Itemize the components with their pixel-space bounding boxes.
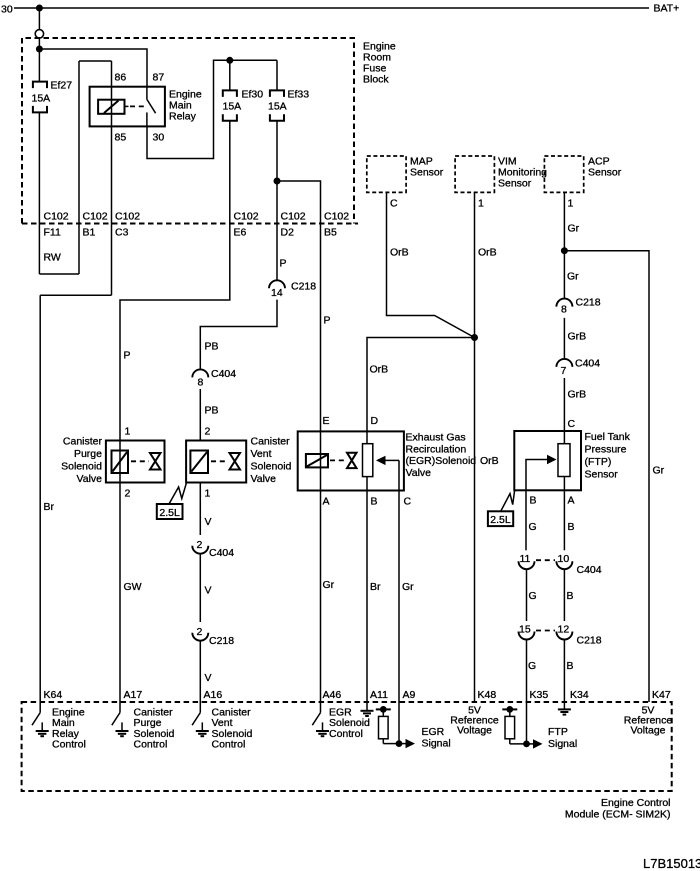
wires below C404 pair (526, 569, 528, 621)
node junction OrB (471, 334, 478, 341)
node junction Ef30 (226, 57, 233, 64)
connector open circle (35, 30, 43, 38)
svg-text:GrB: GrB (568, 331, 587, 343)
svg-text:C218: C218 (209, 635, 234, 647)
EGR signal pull-up supply (376, 706, 391, 716)
FTP signal pull-up supply (502, 706, 517, 716)
wire pin A from resistor (563, 477, 565, 551)
svg-text:B: B (371, 496, 378, 508)
wire to A16 (199, 641, 201, 702)
svg-text:C404: C404 (211, 368, 236, 380)
ACP Sensor box (544, 156, 583, 192)
relay contact blade (147, 99, 156, 113)
svg-text:Relay: Relay (169, 111, 197, 123)
wire B1 column up (78, 61, 80, 274)
svg-text:C: C (568, 418, 576, 430)
svg-text:Ef30: Ef30 (242, 89, 264, 101)
wire pin C stub (563, 431, 565, 444)
svg-text:Br: Br (370, 581, 381, 593)
svg-text:E: E (323, 415, 330, 427)
Canister Purge Solenoid Valve box (106, 441, 165, 483)
wire pin B from resistor (366, 477, 368, 702)
svg-text:OrB: OrB (478, 247, 497, 259)
svg-text:Gr: Gr (323, 579, 335, 591)
Fuel Tank Pressure (FTP) Sensor box (514, 431, 581, 490)
svg-text:OrB: OrB (390, 247, 409, 259)
svg-text:Signal: Signal (422, 738, 451, 750)
svg-text:Ef27: Ef27 (51, 80, 73, 92)
svg-text:15A: 15A (223, 101, 242, 113)
fuse Ef27 15A (33, 82, 47, 89)
EGR valve symbol (347, 453, 357, 468)
svg-text:Solenoid: Solenoid (61, 461, 102, 473)
svg-text:G: G (529, 590, 537, 602)
callout leader bolt (501, 491, 515, 512)
svg-text:C3: C3 (115, 227, 129, 239)
wire to C404-7 (563, 318, 565, 359)
svg-text:C: C (390, 198, 398, 210)
svg-text:Fuel Tank: Fuel Tank (585, 431, 631, 443)
svg-text:(EGR)Solenoid: (EGR)Solenoid (406, 455, 477, 467)
svg-text:Sensor: Sensor (498, 178, 532, 190)
wire to Ef33 (276, 60, 278, 90)
wires below C218 pair (526, 640, 528, 744)
purge valve symbol (150, 453, 161, 470)
relay U1 Engine Main Relay box (90, 87, 165, 127)
svg-text:85: 85 (115, 132, 127, 144)
svg-text:1: 1 (568, 198, 574, 210)
wire relay 86/85 through-column C3 (111, 61, 113, 295)
Engine Control Module (ECM-SIM2K) dashed box (22, 702, 672, 791)
svg-text:Control: Control (329, 728, 363, 740)
svg-text:A11: A11 (370, 689, 388, 701)
svg-text:G: G (528, 660, 536, 672)
svg-text:C102: C102 (324, 211, 349, 223)
node 30 / BAT+ rail (14, 7, 649, 9)
svg-text:P: P (324, 315, 331, 327)
A16 driver switch and ground (192, 702, 209, 736)
svg-text:F11: F11 (44, 227, 61, 239)
svg-text:Gr: Gr (653, 465, 665, 477)
svg-text:V: V (205, 516, 212, 528)
svg-text:E6: E6 (234, 227, 247, 239)
svg-text:10: 10 (558, 553, 570, 565)
EGR position resistor (363, 444, 373, 477)
wire Ef30 down C102 E6 then jog to purge valve (120, 121, 230, 702)
A11 ground (361, 702, 374, 716)
svg-text:GrB: GrB (568, 389, 587, 401)
svg-text:Br: Br (44, 501, 55, 513)
wire BAT+ down to fuse block (38, 8, 40, 30)
svg-text:Control: Control (134, 739, 168, 751)
wire to relay pin 87 (39, 49, 147, 87)
svg-text:P: P (124, 350, 131, 362)
svg-text:2.5L: 2.5L (490, 514, 511, 526)
svg-text:Voltage: Voltage (457, 725, 492, 737)
relay coil (98, 100, 124, 114)
relay contact 87 stub (146, 87, 148, 100)
svg-text:Module (ECM- SIM2K): Module (ECM- SIM2K) (565, 809, 671, 821)
wire jog C3 to K64 column (40, 294, 111, 296)
svg-text:14: 14 (271, 287, 283, 299)
svg-text:K48: K48 (478, 689, 497, 701)
svg-text:Gr: Gr (567, 271, 579, 283)
MAP Sensor box (367, 156, 406, 192)
svg-text:C218: C218 (576, 297, 601, 309)
svg-text:C102: C102 (115, 211, 140, 223)
svg-text:K64: K64 (44, 689, 63, 701)
svg-text:Signal: Signal (548, 738, 577, 750)
wire ACP pin 1 (563, 192, 565, 298)
svg-text:C404: C404 (209, 547, 234, 559)
EGR wiper arrow (385, 459, 399, 461)
svg-text:7: 7 (561, 365, 567, 377)
purge coil link dashes (131, 460, 149, 462)
wire MAP sensor pin C (387, 192, 475, 337)
EGR solenoid coil (306, 454, 328, 467)
svg-text:Control: Control (52, 739, 86, 751)
svg-text:1: 1 (478, 198, 484, 210)
wire to vent valve pin 2 (199, 389, 201, 441)
svg-text:C102: C102 (44, 211, 69, 223)
node junction FTP signal (523, 741, 530, 748)
svg-text:K34: K34 (570, 689, 589, 701)
svg-text:A: A (568, 495, 575, 507)
svg-text:C404: C404 (575, 358, 600, 370)
svg-text:B: B (568, 521, 575, 533)
wire pin B down (525, 490, 527, 550)
svg-text:2: 2 (197, 539, 203, 551)
svg-text:B: B (567, 660, 574, 672)
svg-text:Sensor: Sensor (585, 469, 619, 481)
svg-text:Sensor: Sensor (588, 167, 622, 179)
svg-text:C102: C102 (281, 211, 306, 223)
connector C218 pin 8 (556, 299, 572, 307)
wire RW U-turn bottom (39, 273, 79, 275)
connector row C102 labels (44, 211, 350, 239)
EGR signal arrow (399, 743, 406, 745)
wire Br down to K64 (39, 295, 41, 702)
callout 2.5L (vent) (157, 504, 183, 519)
svg-text:OrB: OrB (480, 455, 499, 467)
node junction to relay 87 (36, 46, 43, 53)
FTP wiper arrow (526, 460, 548, 491)
svg-text:V: V (205, 585, 212, 597)
wire Ef27 down through C102 F11 (38, 112, 40, 274)
K34 ground (558, 709, 571, 714)
svg-text:K47: K47 (652, 689, 671, 701)
wire EGR E/A through-column (320, 431, 322, 702)
svg-text:OrB: OrB (370, 364, 389, 376)
svg-text:Engine Control: Engine Control (601, 797, 670, 809)
svg-text:PB: PB (205, 405, 219, 417)
connector C218 pin 14 (269, 280, 285, 288)
wire to FTP sensor pin C (563, 378, 565, 430)
wire to Ef30 (229, 60, 231, 90)
svg-text:K35: K35 (530, 689, 549, 701)
svg-text:A: A (323, 496, 330, 508)
svg-text:EGR: EGR (422, 726, 445, 738)
svg-text:GW: GW (124, 581, 142, 593)
fuse Ef30 15A (223, 90, 237, 97)
svg-text:Block: Block (363, 74, 389, 86)
svg-text:Purge: Purge (74, 448, 102, 460)
svg-text:30: 30 (153, 132, 165, 144)
vent solenoid coil (190, 451, 208, 474)
svg-text:V: V (205, 672, 212, 684)
wire below vent pin 1 (199, 483, 201, 536)
callout leader bolt (169, 483, 186, 504)
FTP signal resistor (505, 716, 515, 738)
svg-text:B1: B1 (83, 227, 96, 239)
svg-text:FTP: FTP (548, 726, 568, 738)
wire relay 30 to fuses (147, 60, 277, 158)
svg-text:Valve: Valve (251, 473, 277, 485)
node junction ACP branch (561, 247, 568, 254)
vent coil link dashes (211, 460, 228, 462)
svg-text:B: B (530, 495, 537, 507)
svg-text:G: G (529, 521, 537, 533)
FTP signal arrow (527, 743, 534, 745)
svg-text:8: 8 (198, 377, 204, 389)
A17 driver switch and ground (112, 702, 129, 736)
Canister Vent Solenoid Valve box (186, 441, 246, 483)
connector C404 pin 8 (192, 369, 208, 377)
Engine Room Fuse Block dashed box (22, 38, 354, 224)
svg-text:D: D (371, 415, 379, 427)
wire to relay pin 86 (79, 60, 112, 62)
Exhaust Gas Recirculation (EGR) Solenoid Valve box (298, 431, 404, 490)
svg-text:C404: C404 (577, 564, 602, 576)
svg-text:15A: 15A (268, 101, 287, 113)
svg-text:2: 2 (205, 426, 211, 438)
K64 driver switch and ground (32, 702, 49, 736)
svg-text:Ef33: Ef33 (288, 89, 310, 101)
svg-text:Control: Control (212, 739, 246, 751)
svg-text:C102: C102 (234, 211, 259, 223)
svg-text:Solenoid: Solenoid (251, 461, 292, 473)
svg-text:L7B15013: L7B15013 (643, 856, 700, 871)
svg-text:11: 11 (520, 553, 531, 565)
svg-text:PB: PB (205, 341, 219, 353)
svg-text:A46: A46 (323, 689, 342, 701)
svg-text:P: P (280, 258, 287, 270)
wire to C218-2 (199, 554, 201, 622)
FTP internal resistor (558, 444, 570, 477)
relay coil link dashes (125, 105, 129, 107)
svg-text:Voltage: Voltage (630, 725, 665, 737)
node junction B5 branch (274, 178, 281, 185)
wire branch to B5 column (277, 181, 321, 431)
svg-text:8: 8 (561, 304, 567, 316)
wire pin C (398, 460, 400, 743)
A46 driver switch and ground (312, 702, 329, 736)
fuse Ef33 15A (270, 90, 284, 97)
wire VIM pin 1 down to K48 (474, 192, 476, 702)
purge solenoid coil (112, 451, 129, 474)
svg-text:Recirculation: Recirculation (406, 443, 467, 455)
svg-text:Gr: Gr (402, 581, 414, 593)
relay contact 30 stub (146, 112, 148, 126)
svg-text:C218: C218 (291, 281, 316, 293)
svg-text:A9: A9 (403, 689, 416, 701)
svg-text:(FTP): (FTP) (585, 456, 612, 468)
svg-text:Canister: Canister (63, 436, 103, 448)
wire branch to K47 column (564, 251, 649, 702)
svg-text:BAT+: BAT+ (654, 3, 680, 15)
vent valve symbol (230, 453, 241, 470)
wire circle to junction to fuse Ef27 (38, 38, 40, 82)
EGR signal resistor (379, 716, 389, 738)
wire Ef33 down C102 D2 (276, 121, 278, 281)
svg-text:Sensor: Sensor (410, 167, 444, 179)
svg-text:Canister: Canister (251, 436, 291, 448)
svg-text:1: 1 (125, 426, 131, 438)
svg-text:2: 2 (197, 626, 203, 638)
svg-text:86: 86 (115, 72, 127, 84)
svg-text:Pressure: Pressure (585, 444, 627, 456)
svg-text:Gr: Gr (568, 223, 580, 235)
svg-text:Valve: Valve (406, 467, 432, 479)
node junction EGR signal (396, 740, 403, 747)
svg-text:B5: B5 (324, 227, 337, 239)
wire C218-14 down, jog to vent column (200, 300, 277, 370)
svg-text:C: C (404, 496, 412, 508)
svg-text:RW: RW (44, 252, 61, 264)
svg-text:Valve: Valve (77, 473, 103, 485)
svg-text:A17: A17 (124, 689, 143, 701)
junction on BAT+ rail (36, 5, 43, 12)
callout 2.5L (FTP) (488, 511, 513, 526)
svg-text:2.5L: 2.5L (159, 507, 180, 519)
EGR coil link dashes (330, 459, 346, 461)
svg-text:2: 2 (125, 488, 131, 500)
svg-text:15: 15 (519, 624, 531, 636)
svg-text:15A: 15A (32, 93, 51, 105)
connector C404 pin 7 (556, 359, 572, 367)
svg-text:D2: D2 (281, 227, 295, 239)
svg-text:A16: A16 (204, 689, 223, 701)
svg-text:Vent: Vent (251, 448, 272, 460)
svg-text:1: 1 (205, 488, 211, 500)
wire pin D stub (366, 431, 368, 443)
VIM Monitoring Sensor box (455, 156, 494, 192)
svg-text:Exhaust Gas: Exhaust Gas (406, 432, 466, 444)
svg-text:87: 87 (153, 72, 165, 84)
svg-text:B: B (567, 590, 574, 602)
svg-text:30: 30 (1, 4, 13, 16)
wire branch to EGR pin D (367, 338, 475, 432)
svg-text:C218: C218 (577, 635, 602, 647)
svg-text:12: 12 (558, 624, 570, 636)
svg-text:C102: C102 (83, 211, 108, 223)
